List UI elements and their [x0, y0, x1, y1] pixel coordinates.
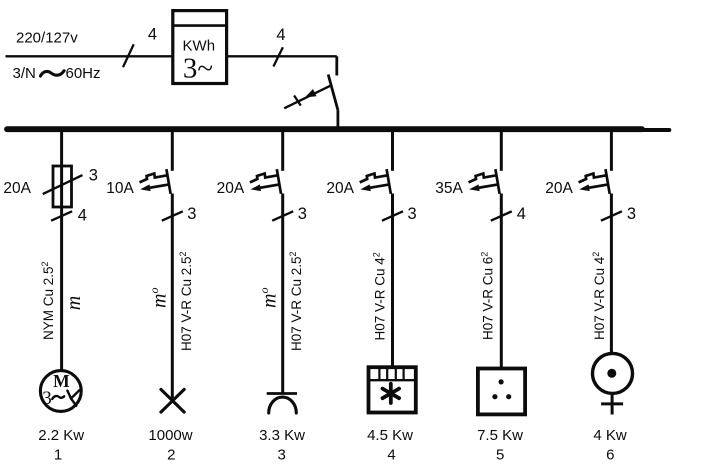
- cooker symbol box: [369, 367, 416, 412]
- main switch slash: [294, 96, 301, 106]
- svg-text:1: 1: [54, 446, 62, 463]
- svg-text:3: 3: [187, 205, 196, 223]
- wire circuit 3 upper: [281, 132, 284, 171]
- wire circuit 2 upper: [171, 132, 174, 171]
- conductor slash circuit 5: [491, 211, 512, 220]
- busbar: [7, 126, 642, 132]
- svg-text:mo: mo: [147, 288, 171, 308]
- svg-text:35A: 35A: [435, 180, 463, 197]
- lamp symbol (X): [161, 389, 184, 412]
- conductor slash supply right: [273, 47, 283, 66]
- breaker Q6: [579, 169, 610, 194]
- svg-text:3: 3: [627, 205, 636, 223]
- svg-text:H07 V-R Cu 42: H07 V-R Cu 42: [372, 252, 388, 340]
- lamp holder circle symbol: [593, 353, 633, 393]
- svg-text:60Hz: 60Hz: [66, 65, 101, 82]
- conductor slash circuit 6: [601, 211, 622, 220]
- wire supply right: [227, 55, 337, 57]
- svg-text:3: 3: [278, 446, 286, 463]
- socket arc symbol: [267, 392, 297, 395]
- svg-text:H07 V-R Cu 42: H07 V-R Cu 42: [591, 252, 607, 340]
- motor wye symbol: [67, 390, 79, 406]
- wire circuit 1: [60, 132, 63, 370]
- wire circuit 4 upper: [391, 132, 394, 171]
- svg-text:3: 3: [408, 205, 417, 223]
- conductor slash circuit 1: [51, 211, 72, 220]
- breaker Q3: [250, 169, 281, 194]
- svg-text:4: 4: [517, 205, 526, 223]
- svg-text:3~: 3~: [183, 53, 213, 85]
- svg-text:m: m: [63, 296, 85, 310]
- conductor slash supply left: [123, 44, 134, 67]
- cooker asterisk: [383, 384, 400, 403]
- svg-text:3: 3: [42, 388, 52, 409]
- svg-text:3: 3: [89, 166, 98, 184]
- motor M1 circle: [40, 371, 81, 412]
- svg-text:4 Kw: 4 Kw: [593, 427, 627, 444]
- svg-text:2: 2: [167, 446, 175, 463]
- svg-text:20A: 20A: [326, 180, 354, 197]
- conductor slash circuit 3: [272, 211, 293, 220]
- svg-text:4.5 Kw: 4.5 Kw: [367, 427, 413, 444]
- svg-text:3: 3: [298, 205, 307, 223]
- svg-text:6: 6: [606, 446, 614, 463]
- svg-text:4: 4: [78, 207, 87, 225]
- wire supply left: [6, 55, 173, 57]
- conductor slash circuit 2: [162, 211, 183, 220]
- breaker Q2: [140, 169, 171, 194]
- svg-text:4: 4: [276, 26, 285, 44]
- wire circuit 6 lower: [610, 194, 613, 353]
- wire circuit 3 lower: [281, 194, 284, 394]
- wire circuit 5 lower: [500, 194, 503, 369]
- svg-text:5: 5: [496, 446, 504, 463]
- svg-text:NYM Cu 2.52: NYM Cu 2.52: [40, 261, 56, 340]
- socket box symbol: [478, 369, 525, 415]
- svg-text:4: 4: [387, 446, 395, 463]
- wire circuit 2 lower: [171, 194, 174, 401]
- svg-text:10A: 10A: [106, 180, 134, 197]
- svg-text:2.2 Kw: 2.2 Kw: [38, 427, 84, 444]
- svg-text:20A: 20A: [3, 180, 31, 197]
- main switch Q0 blade: [328, 75, 338, 129]
- svg-text:M: M: [53, 371, 70, 391]
- sine symbol (50Hz tilde): [41, 71, 65, 76]
- svg-text:220/127v: 220/127v: [16, 30, 78, 47]
- svg-text:3/N: 3/N: [13, 65, 36, 82]
- svg-text:4: 4: [148, 26, 157, 44]
- svg-text:3.3 Kw: 3.3 Kw: [259, 427, 305, 444]
- svg-text:20A: 20A: [545, 180, 573, 197]
- svg-text:1000w: 1000w: [148, 427, 192, 444]
- wire circuit 5 upper: [500, 132, 503, 171]
- wire drop to main switch: [335, 56, 338, 75]
- svg-text:H07 V-R Cu 2.52: H07 V-R Cu 2.52: [178, 251, 194, 351]
- breaker Q4: [360, 169, 391, 194]
- svg-text:20A: 20A: [217, 180, 245, 197]
- svg-text:H07 V-R Cu 2.52: H07 V-R Cu 2.52: [288, 251, 304, 351]
- wire circuit 6 upper: [610, 132, 613, 171]
- breaker Q5: [469, 169, 500, 194]
- svg-text:H07 V-R Cu 62: H07 V-R Cu 62: [479, 252, 495, 340]
- wire circuit 4 lower: [391, 194, 394, 368]
- fuse F1: [53, 166, 72, 207]
- fuse diagonal slash: [43, 175, 83, 194]
- kwh meter box: [173, 11, 227, 84]
- svg-text:7.5 Kw: 7.5 Kw: [477, 427, 523, 444]
- svg-text:mo: mo: [257, 288, 281, 308]
- main switch release arrow: [284, 86, 331, 109]
- conductor slash circuit 4: [382, 211, 403, 220]
- busbar extension: [640, 128, 669, 132]
